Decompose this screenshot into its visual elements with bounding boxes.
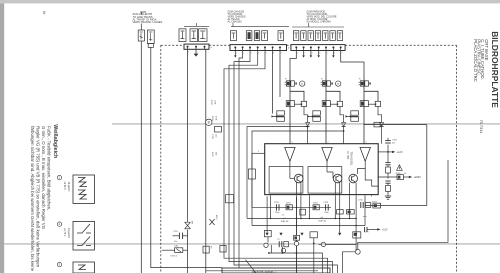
svg-text:C7..: C7.. [282, 215, 286, 217]
wire G2 line to right loop [364, 124, 427, 126]
resistor pair ch3 on rail B [337, 210, 344, 214]
left resistor cluster of cell G (green) [308, 115, 321, 117]
speck top-left [43, 11, 45, 14]
resistor on main wire of cell G (green) [322, 101, 330, 107]
svg-text:Regler VG (R 755) und VB (R 77: Regler VG (R 755) und VB (R 775) so eins… [36, 126, 41, 268]
svg-text:R757: R757 [286, 203, 291, 205]
resistor pair top of cell R (red) [285, 81, 287, 83]
svg-text:R767: R767 [313, 203, 318, 205]
svg-text:ca 75 V: ca 75 V [63, 228, 66, 237]
page fold line lower [4, 243, 500, 244]
bridging resistor box midfield [226, 195, 234, 203]
strip3 short stubs with arrows [303, 51, 305, 56]
ground at strip1 pin2 [195, 49, 197, 53]
bracket over strip3 [292, 26, 344, 28]
connector tick mark top-left [140, 11, 146, 13]
svg-text:1k: 1k [404, 173, 406, 175]
svg-text:3: 3 [311, 53, 312, 55]
component box on wire x206 low [203, 246, 209, 253]
resistor on thick wire ch1 [294, 235, 300, 240]
resistor on main wire of cell R (red) [286, 101, 294, 107]
CRT socket box [222, 268, 330, 273]
component box on bundle wire x223 [220, 245, 226, 252]
op-amp triangle B [360, 147, 370, 161]
svg-text:470k: 470k [214, 116, 216, 120]
bracket over strip1 [184, 25, 209, 27]
IC inner box 1 [269, 167, 303, 194]
branch wire of cell G (green) [326, 91, 340, 101]
svg-text:5: 5 [327, 53, 328, 55]
resistor on G2 line [374, 122, 380, 127]
left resistor cluster of cell B (blue) [346, 115, 359, 117]
diode box in branch of cell G (green) [337, 101, 342, 106]
diode box in branch of cell R (red) [301, 101, 306, 106]
strip3 pin1 wire to cell R [290, 51, 296, 77]
wire strip1 pin3 down [205, 49, 207, 273]
oscillogram box 1 [73, 175, 95, 204]
cap and +12V arrow lower [364, 227, 366, 232]
IC right pin 200V wire with resistor [378, 176, 397, 178]
branch wire of cell B (blue) [364, 91, 378, 101]
dashed module outline right edge [456, 45, 458, 273]
IC left pin stub [252, 152, 265, 154]
op-amp triangle R [285, 147, 295, 161]
ground arrows under IC [266, 233, 269, 236]
test point circle ch3 [355, 249, 360, 254]
wire from IC bottom to right loop [365, 205, 427, 207]
component pair ch2 [310, 232, 317, 238]
lower component group ch1 [264, 230, 271, 236]
connector strip 1 [184, 44, 209, 49]
svg-text:19 µs/cm: 19 µs/cm [67, 228, 70, 238]
svg-text:ws rt: ws rt [363, 215, 367, 218]
rail A under IC [252, 206, 331, 208]
svg-text:AL CHASSIS: AL CHASSIS [228, 21, 243, 24]
output transistor R [289, 161, 291, 178]
svg-text:C7..: C7.. [277, 239, 281, 241]
strip3 pin7 wire to cell B [341, 51, 364, 77]
svg-text:TDA 6103Q: TDA 6103Q [350, 152, 354, 166]
test point circle ch2 [321, 242, 325, 246]
diode chain of cell R (red) [304, 107, 308, 123]
lower cap/res column right of IC [385, 180, 390, 182]
ground hatch right of IC [385, 195, 391, 197]
inductor entering module bottom-left [162, 249, 175, 251]
G1 feedback wire upper [247, 127, 308, 219]
spark gap 2 midfield [209, 219, 214, 225]
bracket over strip2 [231, 26, 289, 28]
svg-text:1: 1 [236, 53, 237, 55]
svg-text:2: 2 [197, 52, 198, 54]
svg-text:färbungen sichtbar sind. Abgle: färbungen sichtbar sind. Abgleich bei wa… [30, 126, 35, 272]
cable label boxes above strip2 [230, 31, 236, 41]
IC bottom-right notch wire [365, 169, 378, 187]
capacitor above 12V wire [387, 145, 389, 152]
cable label box ws [138, 30, 144, 41]
wire from tick to cable label box [140, 12, 142, 14]
circled letter of cell R (red) [300, 81, 305, 86]
svg-text:6: 6 [273, 53, 274, 55]
wire strip1 pin1 down (red cathode line) [187, 49, 189, 222]
resistor R767 on rail A [313, 205, 319, 210]
rail B under IC [247, 217, 356, 219]
IC inner box 2 [308, 167, 342, 194]
svg-text:FuBK - Testbild einspeisen, Bi: FuBK - Testbild einspeisen, Bild abgleic… [47, 126, 52, 210]
right loop wire down [426, 125, 428, 206]
left resistor cluster of cell R (red) [272, 115, 285, 117]
svg-text:G min., O nom., B max. einstel: G min., O nom., B max. einstellen, danac… [41, 126, 46, 230]
svg-text:19 µs/cm: 19 µs/cm [67, 182, 70, 192]
page edge left gray band [0, 3, 4, 273]
component box below circle [215, 127, 222, 133]
svg-text:BILDROHRPLATTE: BILDROHRPLATTE [490, 31, 500, 108]
test point circle on wire x206 [206, 119, 212, 125]
resistor pair top of cell B (blue) [359, 81, 361, 83]
dashed module outline top edge [161, 44, 184, 46]
driver cell R (red): input network [289, 76, 291, 144]
strip2 pin7 wire down [279, 51, 281, 98]
svg-text:10n: 10n [174, 241, 177, 243]
cable label boxes above strip1 [179, 29, 186, 42]
cable label boxes above strip3 [293, 31, 298, 41]
dashed module outline left edge [160, 45, 162, 273]
svg-text:TDA2 4Ω: TDA2 4Ω [281, 220, 289, 223]
oscillogram box 3 (clipped) [73, 262, 95, 273]
test point circle ch1 [281, 248, 285, 252]
stair wires strip2 pins 2-5 to bottom bundle [239, 51, 315, 268]
strip3 pin5 wire to cell G [325, 51, 327, 77]
svg-text:2: 2 [243, 53, 244, 55]
connector strip 2 [230, 45, 287, 51]
svg-text:1: 1 [297, 53, 298, 55]
circled letter of cell G (green) [336, 81, 341, 86]
capacitor on pin1 wire [173, 235, 180, 237]
svg-text:Weißabgleich: Weißabgleich [52, 124, 58, 158]
svg-text:+12V: +12V [382, 229, 388, 232]
cable sub-box [148, 44, 153, 48]
oscillogram box 2 [73, 222, 95, 251]
cap/res cluster ch3 top [360, 202, 362, 208]
svg-text:4: 4 [258, 53, 259, 55]
svg-text:+200V: +200V [413, 175, 421, 179]
page edge top gray band [0, 0, 500, 3]
diode chain of cell B (blue) [378, 107, 382, 123]
svg-text:C745: C745 [358, 200, 363, 202]
warning triangle [397, 165, 403, 171]
output transistor B [357, 161, 365, 174]
wire long left 2 [151, 47, 222, 267]
svg-text:PLACA ZOCALO TRC: PLACA ZOCALO TRC [473, 39, 478, 82]
svg-text:120k: 120k [213, 100, 215, 104]
cap C766 on rail A [325, 204, 327, 210]
svg-text:LRGn 1: LRGn 1 [171, 255, 178, 257]
component pair ch3 [353, 232, 361, 238]
svg-text:5: 5 [266, 53, 267, 55]
branch wire of cell R (red) [290, 91, 304, 101]
page fold line upper [112, 123, 500, 124]
svg-text:220p: 220p [324, 212, 328, 214]
IC right pin 12V wire [378, 151, 392, 153]
svg-text:IC 780: IC 780 [346, 152, 350, 160]
svg-text:4: 4 [319, 53, 320, 55]
svg-text:3: 3 [251, 53, 252, 55]
driver cell G (green): input network [325, 76, 327, 144]
cable label box sw [147, 30, 154, 44]
output transistor G [326, 161, 328, 172]
G1 feedback wire lower [252, 131, 344, 226]
vertical pair between rails ch1 [300, 209, 306, 215]
wire from test point B to bundle [343, 252, 356, 273]
diode chain of cell G (green) [340, 107, 344, 123]
svg-text:2: 2 [304, 53, 305, 55]
connector strip 3 [291, 45, 345, 51]
svg-text:R7..: R7.. [210, 246, 212, 250]
capacitor left of IC [251, 153, 253, 169]
svg-text:220p: 220p [275, 212, 279, 214]
resistor R757 on rail A [286, 205, 292, 210]
svg-text:ca 80 V: ca 80 V [63, 182, 66, 191]
driver cell B (blue): input network [363, 76, 365, 144]
rail C under IC [252, 225, 365, 227]
outer loop wire right side [358, 160, 448, 249]
op-amp triangle G [322, 147, 332, 161]
svg-text:39k: 39k [214, 152, 216, 155]
+12V arrow [392, 151, 395, 153]
wire long left 1 [140, 41, 142, 273]
capacitor+resistor column under 12V [387, 152, 389, 162]
svg-text:B: B [208, 121, 210, 125]
svg-text:10n: 10n [214, 134, 216, 137]
lower component group ch1b caps [278, 241, 280, 247]
spark gap MS on pin1 wire [185, 222, 191, 229]
diagonal lead in socket [246, 260, 256, 273]
strip2 pin1 stub arrow [234, 51, 236, 56]
resistor on main wire of cell B (blue) [360, 101, 368, 107]
svg-text:7: 7 [281, 53, 282, 55]
cap C756 on rail A [275, 204, 277, 210]
diode box in branch of cell B (blue) [375, 101, 380, 106]
IC pin wires down [269, 196, 271, 218]
resistor pair top of cell G (green) [321, 81, 323, 83]
rail from test points into bundle [269, 253, 323, 273]
IC outline TDA6103Q [265, 144, 379, 195]
svg-text:C756: C756 [274, 202, 279, 204]
svg-text:75 7314: 75 7314 [479, 120, 484, 135]
svg-text:7: 7 [341, 53, 342, 55]
svg-text:+12V: +12V [397, 150, 403, 154]
svg-text:TDA? 4Ω: TDA? 4Ω [318, 219, 326, 222]
svg-text:C766: C766 [323, 202, 328, 204]
strip2 pin6 wire down to cell R cluster [272, 51, 274, 114]
IC bottom pin numbers [269, 195, 271, 197]
svg-text:1: 1 [188, 52, 189, 54]
socket feed horizontal from left [206, 270, 318, 272]
svg-text:AU MODUL CHROMA: AU MODUL CHROMA [307, 21, 332, 24]
svg-text:VERS TRANSF. LIGNES: VERS TRANSF. LIGNES [133, 20, 163, 24]
svg-text:6: 6 [334, 53, 335, 55]
